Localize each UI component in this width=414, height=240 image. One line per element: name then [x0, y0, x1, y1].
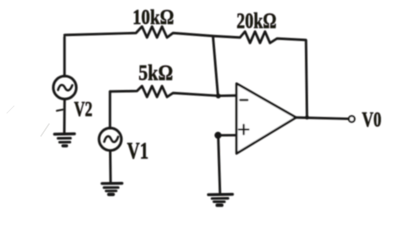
svg-text:20kΩ: 20kΩ: [237, 8, 277, 33]
svg-text:V1: V1: [127, 139, 149, 165]
svg-text:V2: V2: [74, 97, 93, 121]
svg-text:V0: V0: [362, 108, 382, 132]
svg-text:10kΩ: 10kΩ: [133, 5, 175, 29]
svg-text:5kΩ: 5kΩ: [139, 60, 174, 85]
